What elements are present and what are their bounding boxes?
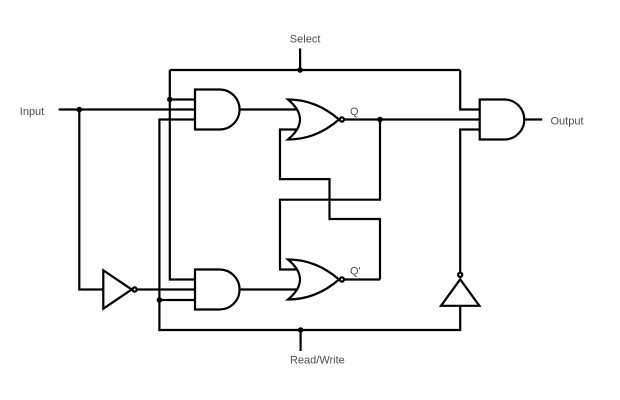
svg-text:Read/Write: Read/Write [290, 355, 345, 367]
svg-text:Output: Output [550, 115, 583, 127]
svg-text:Q': Q' [350, 266, 361, 278]
svg-text:Input: Input [20, 106, 44, 118]
svg-text:Q: Q [350, 106, 359, 118]
svg-text:Select: Select [290, 34, 321, 46]
